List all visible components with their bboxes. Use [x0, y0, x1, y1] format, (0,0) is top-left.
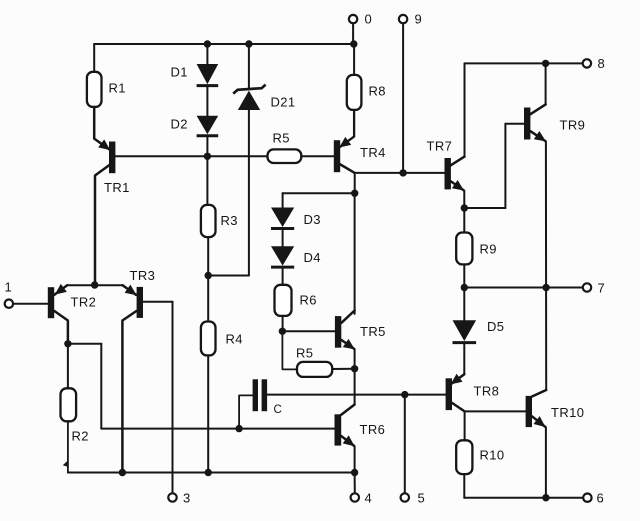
transistor TR3	[137, 287, 143, 318]
junction TR6 emitter / bottom rail	[351, 469, 358, 476]
wire terminal 8 rail	[465, 62, 584, 64]
diode D3	[271, 208, 294, 228]
transistor TR10	[526, 396, 532, 427]
junction terminal 5 / TR8 base rail	[401, 391, 408, 398]
resistor R5	[297, 362, 332, 377]
junction TR1 collector / TR2 TR3 emitters	[91, 281, 98, 288]
wire TR5 collector up to D3 node	[354, 193, 356, 314]
wire TR8 collector to TR10 base	[465, 410, 526, 412]
junction top rail / D21	[245, 40, 252, 47]
wire terminal 1 to TR2 base	[13, 303, 48, 305]
wire D3 branch horizontal	[283, 192, 355, 194]
svg-text:R10: R10	[480, 448, 505, 463]
svg-text:D4: D4	[304, 250, 321, 265]
diode D1	[197, 64, 219, 84]
resistor R8	[347, 75, 362, 110]
svg-text:D1: D1	[171, 65, 188, 80]
wire terminal 6 rail	[464, 497, 583, 499]
wire TR4 collector down to D3 node	[354, 173, 356, 193]
svg-text:9: 9	[415, 12, 423, 27]
diode D4	[271, 246, 294, 265]
wire TR6 base rail	[101, 428, 334, 430]
terminal 3	[168, 493, 176, 501]
transistor TR2	[48, 287, 54, 318]
wire bottom rail	[68, 472, 355, 474]
junction TR5 emitter / R5	[351, 365, 358, 372]
wire D2 to R3	[206, 137, 208, 205]
wire TR2 collector node right	[68, 343, 101, 345]
svg-text:TR9: TR9	[560, 118, 586, 133]
transistor TR4	[334, 140, 340, 172]
wire R5 left lead	[282, 331, 297, 369]
svg-text:D2: D2	[171, 117, 188, 132]
wire D4 to R6	[282, 269, 284, 285]
resistor R2	[61, 388, 77, 421]
wire TR9 base riser	[504, 124, 506, 208]
svg-text:3: 3	[183, 491, 191, 506]
wire TR10 emitter down	[545, 427, 547, 498]
svg-text:R9: R9	[480, 242, 497, 257]
svg-text:R6: R6	[300, 293, 317, 308]
wire to TR9 base riser	[464, 207, 505, 209]
wire R10 bottom	[463, 474, 465, 498]
terminal 0	[349, 15, 357, 23]
wire D5 to TR8 emitter	[463, 343, 465, 374]
junction D3 branch	[351, 190, 358, 197]
wire TR9 emitter / TR10 collector	[545, 141, 547, 390]
wire D5 top	[463, 288, 465, 321]
terminal 6	[583, 494, 591, 502]
wire TR9 collector up	[545, 63, 547, 104]
junction TR9 collector / terminal 8 rail	[542, 60, 549, 67]
wire TR3 base right	[143, 301, 173, 303]
wire terminal 5 line	[404, 395, 406, 494]
junction TR7 emitter / R9 / TR9 base	[461, 204, 468, 211]
svg-text:R3: R3	[221, 213, 238, 228]
svg-text:TR1: TR1	[104, 180, 130, 195]
svg-text:7: 7	[598, 281, 606, 296]
wire TR8 collector to R10	[464, 411, 466, 440]
wire R4 to bottom rail	[207, 355, 209, 472]
diode D5	[453, 320, 477, 341]
wire TR1 collector / emitters rail	[67, 284, 122, 286]
wire R5 right lead	[332, 368, 354, 370]
wire R5 to TR4 base	[301, 155, 334, 157]
transistor TR1	[109, 142, 115, 174]
svg-text:R2: R2	[72, 429, 89, 444]
resistor R10	[456, 440, 472, 474]
wire TR3 base down to terminal 3	[172, 302, 174, 494]
svg-text:TR7: TR7	[427, 139, 453, 154]
svg-text:D5: D5	[487, 319, 504, 334]
junction R6 / TR5 base / R5	[279, 328, 286, 335]
svg-text:TR8: TR8	[474, 384, 500, 399]
svg-text:TR2: TR2	[71, 295, 97, 310]
wire down to D3	[282, 193, 284, 207]
resistor R3	[201, 205, 216, 237]
transistor TR8	[446, 378, 452, 410]
transistor TR5	[335, 316, 341, 348]
transistor TR9	[524, 108, 530, 140]
wire TR4 collector to TR7 base	[355, 172, 445, 174]
wire top supply rail	[94, 43, 354, 45]
wire D1 to D2	[206, 87, 208, 116]
wire D2 node to R5	[207, 155, 267, 157]
junction top rail / R8	[350, 40, 357, 47]
wire R3 to R4	[207, 237, 209, 321]
junction capacitor branch	[235, 425, 242, 432]
junction R3/R4/D21	[205, 272, 212, 279]
wire TR1 base to D2 node	[115, 155, 207, 157]
wire top rail to D21	[248, 44, 250, 88]
wire R6 to TR5 base node	[282, 316, 284, 331]
wire TR6 emitter down	[354, 446, 356, 472]
transistor TR7	[445, 158, 451, 189]
wire TR5 emitter down	[354, 349, 356, 368]
wire D21 to R3/R4 node	[208, 275, 249, 277]
terminal 8	[583, 59, 591, 67]
wire top rail to D1	[206, 44, 208, 64]
resistor R1	[87, 72, 102, 107]
junction R4 / bottom rail	[205, 469, 212, 476]
wire TR9 base	[505, 123, 524, 125]
capacitor C	[253, 379, 258, 411]
wire TR7 emitter down	[463, 191, 465, 209]
terminal 1	[5, 300, 13, 308]
resistor R4	[201, 322, 216, 356]
junction TR3 collector / bottom rail	[119, 469, 126, 476]
zener diode D21	[233, 85, 265, 94]
wire R2 top	[67, 344, 69, 389]
wire top rail to R1	[93, 44, 95, 72]
resistor R9	[456, 233, 472, 265]
terminal 5	[401, 493, 409, 501]
junction TR10 emitter / terminal 6 rail	[542, 494, 549, 501]
wire R9 top	[463, 208, 465, 233]
wire terminal 7 rail	[464, 287, 583, 289]
svg-text:R5: R5	[296, 346, 313, 361]
wire terminal 9 down to TR7 base node	[402, 23, 404, 173]
svg-text:TR5: TR5	[360, 324, 386, 339]
wire down to TR6 base rail	[100, 344, 102, 429]
terminal 4	[351, 493, 359, 501]
resistor R5	[268, 149, 302, 163]
wire D21 anode down	[248, 110, 250, 276]
svg-text:0: 0	[365, 12, 373, 27]
svg-text:1: 1	[5, 280, 13, 295]
svg-text:TR6: TR6	[360, 422, 386, 437]
svg-text:TR3: TR3	[130, 268, 156, 283]
wire bottom rail to terminal 4	[354, 473, 356, 494]
svg-text:D3: D3	[304, 212, 321, 227]
wire R9 bottom	[463, 264, 465, 287]
junction D2 / TR1 base / R5	[204, 153, 211, 160]
svg-text:TR10: TR10	[551, 405, 584, 420]
junction R9 / D5 / terminal 7 rail	[461, 284, 468, 291]
svg-text:4: 4	[365, 491, 373, 506]
diode D2	[197, 116, 219, 134]
svg-text:R4: R4	[226, 332, 243, 347]
wire TR7 collector up	[464, 63, 466, 156]
wire TR5 base	[282, 330, 335, 332]
wire capacitor to TR8 base	[267, 394, 446, 396]
svg-text:6: 6	[597, 491, 605, 506]
wire R2 bottom	[67, 421, 69, 472]
wire D3 to D4	[282, 230, 284, 246]
svg-text:R1: R1	[109, 81, 126, 96]
svg-text:R8: R8	[369, 84, 386, 99]
wire capacitor branch	[239, 395, 253, 428]
svg-text:R5: R5	[273, 131, 290, 146]
svg-text:8: 8	[598, 56, 606, 71]
resistor R6	[275, 285, 292, 316]
wire R8 top	[353, 44, 355, 75]
transistor TR6	[335, 414, 342, 445]
svg-text:TR4: TR4	[360, 145, 386, 160]
junction TR2 collector / R2	[64, 340, 71, 347]
wire terminal 0 to top rail	[352, 23, 354, 44]
svg-text:D21: D21	[271, 95, 296, 110]
wire TR6 collector up	[354, 369, 356, 405]
junction top rail / D1	[204, 40, 211, 47]
terminal 7	[583, 283, 591, 291]
junction terminal9 line / TR4-TR7 wire	[399, 169, 406, 176]
terminal 9	[399, 15, 407, 23]
junction terminal 7 rail	[542, 284, 549, 291]
svg-text:C: C	[274, 404, 283, 416]
svg-text:5: 5	[418, 491, 426, 506]
